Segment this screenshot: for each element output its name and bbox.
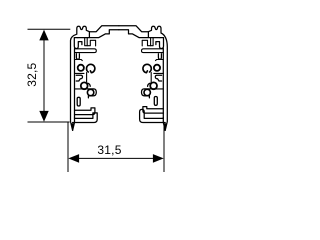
arrowhead left — [68, 154, 79, 163]
top plate inner surface left — [78, 30, 119, 38]
extension line left — [67, 122, 69, 172]
top plate inner surface right — [119, 30, 160, 38]
comb finger L1a — [75, 60, 83, 61]
horizontal bar right — [142, 49, 164, 53]
under-ear hook groove right — [156, 38, 164, 49]
arrowhead down — [39, 111, 48, 122]
step tab left — [87, 40, 95, 46]
profile outer contour left half (wall, ear, plateau) — [71, 26, 119, 131]
conductor ring L2 — [81, 82, 88, 89]
conductor slot L1 — [76, 54, 79, 60]
left tip wedge fill — [71, 123, 74, 130]
hanging rib left — [85, 38, 88, 46]
pointed slot L2 — [76, 75, 82, 81]
bottom finger w/ lip right — [143, 107, 163, 114]
step tab right — [142, 40, 150, 46]
bottom flange J-hook left — [73, 113, 98, 123]
data slot R — [154, 97, 157, 106]
curl pocket R1 — [143, 64, 151, 72]
pointed slot R2 — [155, 75, 161, 81]
right wall bottom taper — [163, 118, 165, 131]
data slot L — [77, 97, 80, 106]
bottom finger w/ lip left — [75, 108, 95, 115]
conductor ring R1 — [154, 65, 160, 71]
conductor ring R3 — [144, 89, 150, 95]
curl tail L2 — [87, 83, 90, 86]
extension line right — [163, 126, 165, 172]
comb finger L3 — [75, 88, 87, 90]
extension tick top — [28, 28, 71, 30]
comb finger R1b — [154, 72, 164, 74]
chain connector L — [86, 73, 88, 82]
arrowhead right — [153, 154, 164, 163]
right wall inner surface — [162, 49, 164, 118]
conductor ring L3 — [87, 89, 93, 95]
bottom flange J-hook right (larger curl) — [140, 109, 166, 122]
horizontal bar left — [75, 49, 97, 53]
curl pocket L1 — [86, 64, 94, 72]
vertical dimension line — [43, 33, 45, 118]
under-ear hook groove left — [74, 38, 82, 49]
curl tail R2 — [148, 83, 151, 86]
left wall inner surface — [74, 49, 76, 118]
conductor ring R2 — [150, 82, 157, 89]
conductor slot R1 — [158, 54, 161, 60]
chain connector R — [150, 73, 152, 82]
arrowhead up — [39, 30, 48, 41]
shoulder step left — [88, 32, 90, 38]
profile outer contour right half (plateau, ear, wall) — [119, 26, 167, 131]
conductor ring L1 — [78, 65, 84, 71]
comb finger R3 — [152, 88, 164, 90]
svg-text:31,5: 31,5 — [97, 143, 121, 157]
hanging rib right — [151, 38, 154, 46]
box pocket R3 — [142, 89, 152, 98]
comb finger L1b — [75, 72, 85, 74]
left wall bottom taper — [73, 118, 75, 131]
right tip wedge fill — [164, 123, 167, 130]
comb finger R1a — [156, 60, 164, 61]
svg-text:32,5: 32,5 — [25, 63, 39, 87]
shoulder step right — [147, 32, 149, 38]
horizontal dimension line — [71, 157, 161, 159]
box pocket L3 — [86, 89, 96, 98]
extension tick bottom — [28, 121, 70, 123]
